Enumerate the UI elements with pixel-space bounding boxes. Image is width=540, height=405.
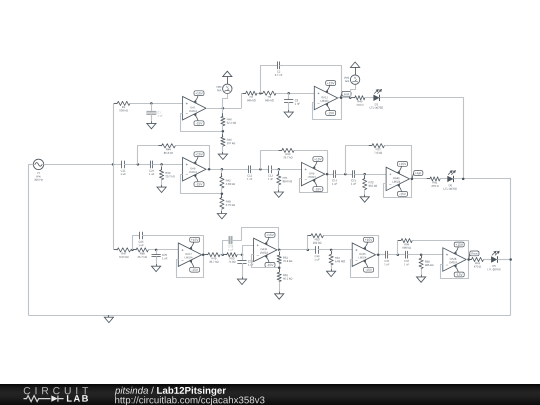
junction R20 at OA9 output — [326, 173, 329, 176]
power +15V tag for OA35 — [363, 237, 374, 249]
LED D5 LTL-307EE — [487, 251, 500, 271]
wire — [318, 249, 352, 251]
node flag Rout — [469, 251, 479, 260]
power +15V tag for OA42 — [397, 162, 408, 174]
junction R51/R52 divider — [278, 267, 281, 270]
wire — [242, 263, 244, 277]
capacitor C15 1 uF — [348, 170, 358, 184]
op-amp OA35 LM324 — [352, 243, 375, 266]
power +15V tag for OA9 — [312, 157, 323, 169]
wire R22 feedback left — [346, 146, 372, 175]
wire — [278, 185, 280, 190]
junction C25 at OA17 output — [202, 253, 205, 256]
wire VM0 drop — [223, 94, 228, 109]
op-amp OA30 LM324 — [254, 238, 277, 261]
CircuitLab logo — [24, 387, 88, 394]
capacitor C12 1 uF — [244, 166, 254, 180]
attribution text — [115, 387, 148, 396]
junction R30 tap — [160, 163, 163, 166]
power -15V tag for OA17 — [189, 260, 200, 272]
resistor R48b 6.76 k&#937; — [220, 194, 235, 212]
wire — [222, 108, 224, 116]
wire — [161, 180, 163, 185]
resistor R41 470 &#937; — [427, 177, 444, 187]
ground — [284, 110, 293, 118]
resistor R40 470 &#937; — [352, 96, 369, 106]
power -15V tag for OA35 — [363, 260, 374, 272]
wire C28 feedback left — [223, 241, 230, 255]
resistor R49 35.7 k&#937; — [205, 253, 224, 263]
junction C2 tap — [259, 92, 262, 95]
wire — [161, 164, 163, 169]
wire bottom return rail — [28, 315, 510, 317]
wire — [148, 249, 178, 251]
wire — [376, 254, 386, 256]
ground — [218, 152, 227, 160]
op-amp OA28 LM324 — [443, 248, 466, 271]
junction R55 tap — [397, 253, 400, 256]
wire — [44, 164, 120, 166]
capacitor C31 1 uF — [382, 251, 392, 265]
wire — [325, 174, 333, 176]
ground — [217, 211, 226, 219]
power -15V tag for OA30 — [264, 255, 275, 267]
resistor R22 7.9 k&#937; — [369, 144, 388, 154]
junction input rail / V1 — [112, 163, 115, 166]
op-amp OA11 LM324 — [314, 86, 337, 109]
wire C26 stub — [156, 250, 158, 254]
wire — [338, 97, 351, 99]
resistor R51 76.8 k&#937; — [277, 252, 292, 267]
wire R44 feedback right — [175, 146, 209, 170]
wire R53 feedback left — [308, 236, 311, 250]
feedback wire OA42 — [384, 179, 412, 198]
resistor R5 595 k&#937; — [260, 91, 280, 101]
LED D1 LTL-307EE — [370, 89, 383, 109]
wire — [410, 178, 430, 180]
wire C2 feedback left — [261, 66, 278, 94]
junction node B2 — [241, 253, 244, 256]
wire — [331, 265, 333, 269]
wire — [288, 102, 290, 110]
wire rail to R47 — [113, 249, 117, 251]
power +15V tag for OA17 — [189, 237, 200, 249]
wire — [365, 97, 374, 99]
wire — [271, 169, 301, 171]
capacitor C3 1 nF — [284, 96, 300, 105]
resistor R46 52.4 k&#937; — [221, 113, 236, 129]
wire — [388, 254, 405, 256]
junction R56 tap — [420, 253, 423, 256]
wire — [421, 255, 423, 259]
resistor R20 26.7 k&#937; — [279, 148, 298, 158]
junction C25 tap — [131, 249, 134, 252]
capacitor C32 1 uF — [401, 251, 411, 265]
wire R20 feedback left — [261, 151, 282, 170]
resistor R47 9.63 k&#937; — [114, 248, 134, 258]
capacitor C11 1 uF — [118, 161, 128, 175]
wire — [278, 169, 280, 174]
feedback wire OA11 — [313, 98, 342, 120]
wire — [276, 93, 314, 95]
op-amp OA9 LM324 — [302, 162, 325, 185]
feedback wire OA28 — [441, 260, 469, 279]
resistor R54 5.69 M&#937; — [329, 251, 345, 268]
wire — [336, 174, 353, 176]
feedback wire OA30 — [252, 255, 280, 268]
junction OA30 output / R51 — [278, 249, 281, 252]
feedback wire OA35 — [351, 255, 379, 278]
wire R55 feedback left — [398, 241, 402, 255]
power -15V tag for OA11 — [325, 103, 336, 115]
junction R55 at OA28 output — [467, 258, 470, 261]
ground — [275, 292, 284, 300]
ground — [147, 121, 156, 129]
wire C25 feedback right — [142, 236, 204, 255]
wire B2 to OA30 + — [243, 246, 254, 255]
wire — [130, 103, 183, 105]
junction R53 at OA35 output — [377, 253, 380, 256]
capacitor C14 1 uF — [329, 170, 339, 184]
feedback wire OA9 — [300, 174, 328, 192]
wire — [331, 250, 333, 254]
junction R20 tap — [259, 168, 262, 171]
resistor R1 538 k&#937; — [114, 101, 133, 111]
ground (up) for VM0 — [223, 71, 232, 84]
wire — [364, 190, 366, 195]
ground — [360, 195, 369, 203]
ground — [274, 190, 283, 198]
feedback wire OA1 — [181, 114, 223, 132]
junction C26 tap — [155, 249, 158, 252]
wire — [113, 103, 117, 105]
capacitor C28 1 uF — [226, 236, 236, 251]
power +15V tag for OA8 — [193, 152, 204, 164]
junction C2/feedback at OA11 output — [340, 97, 343, 100]
wire input rail vertical — [113, 103, 115, 250]
power -15V tag for OA28 — [453, 265, 464, 277]
capacitor C13 1 uF — [265, 166, 275, 180]
resistor R23 952 k&#937; — [363, 175, 377, 192]
feedback wire OA17 — [177, 255, 204, 278]
power +15V tag for OA11 — [325, 81, 336, 93]
wire OA1 output to R4 — [242, 94, 246, 109]
resistor R43 470 &#937; — [468, 257, 486, 267]
wire R55 feedback right — [412, 241, 468, 260]
wire — [279, 282, 281, 292]
junction R23 tap — [363, 173, 366, 176]
LED D6 LTL-307EE — [444, 170, 457, 190]
ground — [237, 277, 246, 285]
resistor R50 74 k&#937; — [224, 253, 241, 263]
wire C3 stub — [288, 93, 290, 100]
junction R42 tap — [221, 168, 224, 171]
wire — [220, 254, 227, 256]
resistor R30 20.2 k&#937; — [160, 167, 175, 183]
junction node C1 — [150, 102, 153, 105]
wire — [440, 178, 447, 180]
wire left rail — [28, 164, 30, 315]
wire — [206, 108, 242, 110]
power +15V tag for OA28 — [453, 242, 464, 254]
junction C28 tap — [221, 253, 224, 256]
power +15V tag for OA1 — [193, 91, 204, 103]
junction R44 at OA8 output — [208, 168, 211, 171]
wire — [364, 174, 366, 179]
wire — [221, 188, 223, 198]
junction top row return — [462, 178, 465, 181]
wire — [497, 259, 510, 261]
resistor R52 40.2 k&#937; — [277, 269, 292, 285]
junction R21 tap — [278, 168, 281, 171]
junction R22 tap — [344, 173, 347, 176]
wire — [355, 174, 387, 176]
wire — [484, 259, 492, 261]
resistor R45 107 k&#937; — [221, 134, 235, 150]
wire — [251, 169, 269, 171]
node flag Low — [340, 91, 351, 97]
wire R22 feedback right — [384, 146, 411, 179]
node flag High — [412, 171, 423, 179]
resistor R42 4.83 k&#937; — [220, 173, 235, 191]
ground — [104, 315, 113, 323]
resistor R56 985 k&#937; — [419, 255, 433, 272]
wire — [237, 254, 242, 256]
wire D1 to right rail — [380, 98, 464, 179]
wire C25 feedback left — [133, 236, 140, 250]
junction node C3 — [287, 92, 290, 95]
wire — [202, 254, 208, 256]
capacitor C1 1 uF — [146, 108, 162, 117]
op-amp OA8 LM324 — [183, 158, 206, 181]
voltage source V1 sine 300 Hz — [30, 159, 48, 180]
capacitor C30 1 uF — [312, 246, 322, 260]
junction OA1 output — [222, 107, 225, 110]
voltmeter VM1 — [344, 75, 360, 84]
wire R20 feedback right — [294, 151, 327, 175]
wire — [131, 249, 137, 251]
CircuitLab footer bar — [0, 384, 540, 405]
capacitor C29 1 uF — [237, 257, 253, 266]
junction OA8 feedback tap — [221, 192, 224, 195]
wire — [222, 146, 224, 152]
capacitor C2 4.7 nF — [273, 62, 283, 76]
op-amp OA42 LM324 — [386, 167, 409, 190]
wire C2 feedback right — [280, 66, 342, 98]
junction R54 tap — [330, 249, 333, 252]
wire — [206, 169, 248, 171]
junction right rail / D5 — [509, 258, 512, 261]
junction R22 at OA42 output — [411, 178, 414, 181]
power -15V tag for OA9 — [312, 179, 323, 191]
capacitor C26 1 uF — [152, 251, 168, 260]
resistor R55 698 k&#937; — [398, 239, 416, 249]
junction VM1 tap — [349, 97, 352, 100]
power -15V tag for OA8 — [193, 174, 204, 186]
voltmeter VM0 — [216, 84, 232, 93]
wire VM1 drop — [351, 84, 356, 97]
wire — [28, 164, 33, 166]
junction OA1 feedback tap — [222, 130, 225, 133]
ground — [157, 185, 166, 193]
junction R44 tap — [137, 163, 140, 166]
op-amp OA1 LM324 — [183, 97, 206, 120]
ground — [152, 264, 161, 272]
wire — [221, 169, 223, 176]
capacitor C24 1 uF — [146, 161, 156, 175]
resistor R48 36.7 k&#937; — [133, 248, 152, 258]
wire C28 feedback right — [232, 228, 279, 250]
wire — [153, 164, 183, 166]
power -15V tag for OA1 — [193, 113, 204, 125]
logo squiggle: resistor + diode — [24, 396, 64, 402]
resistor R53 292 k&#937; — [308, 234, 327, 244]
wire — [124, 164, 150, 166]
wire — [151, 114, 153, 121]
wire D6 to right rail — [454, 179, 511, 316]
wire — [279, 250, 281, 255]
wire — [421, 269, 423, 275]
op-amp OA17 LM324 — [178, 243, 201, 266]
junction R53 tap — [307, 249, 310, 252]
capacitor C25 1 uF — [136, 232, 146, 246]
wire C29 stub — [242, 255, 244, 261]
wire C1 stub — [151, 103, 153, 111]
ground (up) for VM1 — [351, 62, 360, 75]
wire R53 feedback right — [323, 236, 378, 255]
wire — [221, 209, 223, 211]
wire — [156, 257, 158, 265]
wire — [466, 259, 471, 261]
power +15V tag for OA30 — [264, 233, 275, 245]
wire — [277, 249, 313, 251]
wire R44 feedback left — [138, 146, 162, 165]
wire — [257, 93, 263, 95]
feedback wire OA8 — [181, 175, 222, 194]
footer contents — [0, 384, 540, 405]
resistor R21 88.6 k&#937; — [277, 171, 292, 188]
wire — [222, 126, 224, 137]
ground — [327, 269, 336, 277]
resistor R4 595 k&#937; — [243, 91, 261, 101]
power -15V tag for OA42 — [397, 184, 408, 196]
wire — [279, 264, 281, 273]
resistor R44 36.3 k&#937; — [158, 144, 178, 154]
wire — [408, 254, 443, 256]
ground — [417, 275, 426, 283]
